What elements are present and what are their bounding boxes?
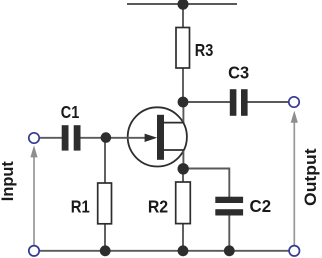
transistor Q1 body — [128, 107, 187, 166]
svg-text:R3: R3 — [195, 40, 214, 60]
node emitter junction — [178, 163, 189, 174]
node ground junction R1 — [100, 245, 111, 256]
wire input terminal to C1 — [39, 137, 62, 139]
wire collector node down to transistor — [182, 102, 184, 123]
node ground junction C2 — [224, 245, 235, 256]
resistor R1 — [98, 183, 112, 224]
svg-text:R2: R2 — [148, 196, 169, 216]
capacitor C2 — [215, 197, 243, 216]
terminal ground left — [29, 246, 39, 256]
node ground junction R2 — [178, 245, 189, 256]
transistor Q1 base bar — [157, 115, 164, 160]
wire rail to R3 — [182, 4, 184, 28]
node collector junction — [178, 97, 189, 108]
terminal ground right — [289, 246, 299, 256]
wire C1 to base node — [80, 137, 106, 139]
svg-text:Output: Output — [301, 148, 320, 206]
capacitor C1 — [62, 125, 81, 150]
input annotation arrow — [30, 145, 37, 245]
resistor R2 — [176, 182, 191, 224]
wire R3 to collector node — [182, 68, 184, 102]
output annotation arrow — [291, 111, 298, 246]
svg-text:C2: C2 — [250, 196, 272, 216]
wire R1 to bottom rail — [104, 224, 106, 251]
wire emitter node to R2 — [182, 169, 184, 183]
wire base node to transistor arrow — [106, 137, 148, 139]
transistor Q1 collector lead — [164, 122, 185, 124]
wire top supply rail — [127, 3, 237, 5]
transistor Q1 emitter lead — [164, 149, 185, 151]
resistor R3 — [176, 28, 190, 69]
node supply junction — [178, 0, 189, 10]
svg-text:Input: Input — [0, 161, 17, 201]
terminal output — [289, 97, 299, 107]
capacitor C3 — [230, 89, 248, 116]
svg-text:C3: C3 — [228, 63, 249, 83]
terminal input — [29, 133, 39, 143]
wire R2 to bottom rail — [182, 224, 184, 251]
wire C2 to bottom rail — [228, 215, 230, 251]
wire C3 to output terminal — [247, 101, 289, 103]
transistor Q1 base arrowhead — [145, 134, 158, 142]
svg-text:C1: C1 — [61, 102, 80, 122]
wire transistor emitter down to emitter node — [182, 150, 184, 169]
wire emitter node to C2 branch — [183, 169, 229, 198]
node base junction — [101, 132, 112, 143]
svg-text:R1: R1 — [71, 196, 90, 216]
wire base node down to R1 — [104, 138, 106, 183]
wire bottom ground rail — [40, 250, 290, 252]
wire collector node to C3 — [183, 101, 230, 103]
